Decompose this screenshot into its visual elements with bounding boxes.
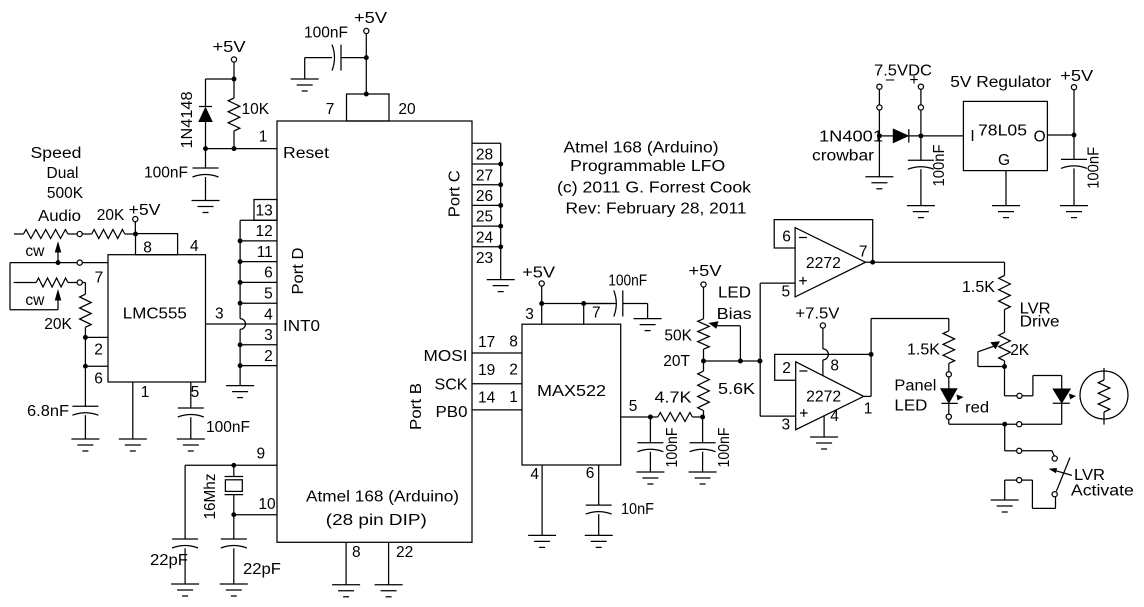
svg-text:+5V: +5V	[689, 263, 723, 280]
svg-text:17: 17	[478, 334, 495, 351]
svg-text:20: 20	[398, 101, 416, 118]
svg-text:(c) 2011 G. Forrest Cook: (c) 2011 G. Forrest Cook	[557, 179, 751, 196]
svg-text:+5V: +5V	[213, 39, 247, 56]
svg-text:3: 3	[781, 417, 790, 434]
svg-text:2272: 2272	[806, 388, 841, 405]
svg-text:Atmel 168 (Arduino): Atmel 168 (Arduino)	[564, 140, 719, 157]
svg-text:–: –	[886, 71, 895, 88]
svg-text:5: 5	[191, 384, 200, 401]
svg-text:4: 4	[530, 466, 539, 483]
svg-text:28: 28	[476, 147, 493, 164]
svg-text:100nF: 100nF	[716, 428, 733, 468]
svg-text:20K: 20K	[97, 207, 125, 224]
svg-text:Audio: Audio	[38, 208, 81, 225]
svg-text:10: 10	[258, 496, 276, 513]
svg-text:LED: LED	[718, 285, 751, 302]
svg-text:20K: 20K	[44, 316, 72, 333]
svg-text:26: 26	[476, 188, 493, 205]
svg-text:23: 23	[476, 250, 493, 267]
svg-text:8: 8	[830, 357, 839, 374]
svg-text:4: 4	[190, 238, 199, 255]
svg-text:100nF: 100nF	[608, 273, 647, 290]
svg-text:+5V: +5V	[354, 10, 388, 27]
svg-text:20T: 20T	[663, 353, 690, 370]
svg-text:3: 3	[525, 306, 534, 323]
svg-text:22: 22	[396, 544, 413, 561]
svg-text:100nF: 100nF	[144, 165, 188, 182]
svg-text:24: 24	[476, 229, 494, 246]
svg-text:1N4001: 1N4001	[819, 129, 883, 146]
svg-text:Atmel 168 (Arduino): Atmel 168 (Arduino)	[306, 489, 459, 506]
svg-text:MOSI: MOSI	[424, 348, 468, 365]
svg-text:G: G	[998, 152, 1010, 169]
svg-text:Rev: February 28, 2011: Rev: February 28, 2011	[566, 201, 747, 218]
svg-text:1: 1	[509, 389, 518, 406]
svg-text:Port B: Port B	[408, 383, 425, 430]
svg-text:+5V: +5V	[1060, 68, 1094, 85]
svg-text:10nF: 10nF	[621, 501, 654, 518]
svg-text:Panel: Panel	[894, 378, 936, 395]
svg-text:9: 9	[256, 446, 265, 463]
svg-text:crowbar: crowbar	[812, 148, 874, 165]
svg-text:19: 19	[478, 362, 495, 379]
svg-text:+5V: +5V	[129, 202, 162, 219]
svg-text:LED: LED	[894, 398, 927, 415]
svg-text:13: 13	[256, 202, 273, 219]
svg-text:Port D: Port D	[290, 248, 307, 295]
svg-text:100nF: 100nF	[931, 145, 948, 187]
svg-text:1.5K: 1.5K	[907, 341, 941, 358]
svg-text:1.5K: 1.5K	[962, 279, 996, 296]
svg-text:5V Regulator: 5V Regulator	[950, 74, 1051, 91]
svg-text:O: O	[1034, 129, 1046, 146]
svg-text:1: 1	[864, 401, 873, 418]
svg-text:6: 6	[586, 465, 595, 482]
svg-text:I: I	[970, 128, 974, 145]
svg-text:2: 2	[782, 360, 791, 377]
svg-text:10K: 10K	[242, 101, 270, 118]
svg-text:cw: cw	[25, 243, 45, 260]
svg-text:50K: 50K	[664, 328, 692, 345]
svg-text:INT0: INT0	[283, 318, 320, 335]
svg-text:5: 5	[264, 286, 273, 303]
svg-text:Drive: Drive	[1020, 314, 1060, 331]
svg-text:7: 7	[326, 101, 335, 118]
svg-text:16Mhz: 16Mhz	[202, 474, 219, 520]
svg-text:+5V: +5V	[522, 265, 556, 282]
svg-text:Port C: Port C	[446, 170, 463, 217]
svg-text:100nF: 100nF	[664, 428, 681, 468]
svg-text:8: 8	[352, 544, 361, 561]
svg-text:2272: 2272	[806, 255, 841, 272]
svg-text:22pF: 22pF	[150, 552, 188, 569]
svg-text:3: 3	[264, 327, 273, 344]
svg-text:6: 6	[264, 265, 273, 282]
svg-text:2: 2	[264, 348, 273, 365]
svg-text:+7.5V: +7.5V	[795, 306, 840, 323]
svg-text:12: 12	[256, 223, 273, 240]
svg-text:Activate: Activate	[1071, 482, 1134, 499]
svg-text:PB0: PB0	[436, 404, 468, 421]
svg-text:SCK: SCK	[435, 377, 469, 394]
svg-text:6.8nF: 6.8nF	[27, 403, 69, 420]
svg-text:2: 2	[94, 342, 103, 359]
svg-text:7: 7	[859, 244, 868, 261]
svg-text:1: 1	[259, 129, 268, 146]
svg-text:14: 14	[478, 390, 496, 407]
svg-text:8: 8	[509, 334, 518, 351]
svg-text:22pF: 22pF	[243, 561, 281, 578]
svg-text:Reset: Reset	[283, 145, 330, 162]
svg-text:Bias: Bias	[717, 306, 752, 323]
svg-text:Dual: Dual	[47, 165, 79, 182]
svg-text:5.6K: 5.6K	[718, 381, 756, 398]
svg-text:4: 4	[830, 408, 839, 425]
svg-text:25: 25	[476, 209, 493, 226]
svg-text:78L05: 78L05	[978, 123, 1027, 140]
svg-text:+: +	[909, 72, 918, 89]
svg-text:5: 5	[781, 283, 790, 300]
svg-text:Programmable LFO: Programmable LFO	[570, 158, 725, 175]
svg-text:7.5VDC: 7.5VDC	[874, 63, 932, 80]
svg-text:5: 5	[629, 398, 638, 415]
svg-text:1: 1	[141, 384, 150, 401]
svg-text:11: 11	[257, 244, 273, 261]
svg-text:6: 6	[94, 371, 103, 388]
svg-text:LMC555: LMC555	[123, 306, 187, 323]
svg-text:100nF: 100nF	[1085, 147, 1102, 189]
svg-text:red: red	[965, 399, 989, 416]
svg-text:1N4148: 1N4148	[179, 92, 196, 149]
svg-text:100nF: 100nF	[206, 419, 250, 436]
svg-text:6: 6	[782, 228, 791, 245]
svg-text:4: 4	[264, 306, 273, 323]
svg-text:2K: 2K	[1010, 342, 1030, 359]
svg-text:Speed: Speed	[31, 145, 82, 162]
svg-text:MAX522: MAX522	[537, 383, 606, 400]
svg-text:cw: cw	[25, 292, 45, 309]
svg-text:7: 7	[592, 304, 601, 321]
svg-text:7: 7	[95, 270, 104, 287]
svg-text:3: 3	[215, 306, 224, 323]
svg-text:(28 pin DIP): (28 pin DIP)	[326, 512, 427, 529]
svg-text:500K: 500K	[47, 185, 84, 202]
svg-text:100nF: 100nF	[304, 25, 348, 42]
svg-text:27: 27	[476, 167, 493, 184]
svg-text:4.7K: 4.7K	[655, 390, 693, 407]
svg-text:2: 2	[509, 362, 518, 379]
svg-text:8: 8	[143, 239, 152, 256]
